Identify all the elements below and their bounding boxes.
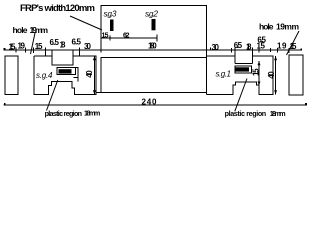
svg-text:15: 15 [102,33,109,40]
width dimension 15 right [258,61,260,85]
svg-text:40: 40 [85,70,94,78]
svg-text:18mm: 18mm [84,109,100,118]
right grip shape with plastic region notch [206,56,273,94]
plastic region leader right [235,79,247,112]
left grip shape with plastic region notch [34,56,96,94]
strain gauge s.g.1 bar [236,67,250,71]
svg-text:6.5: 6.5 [72,38,82,47]
svg-text:30: 30 [212,43,220,52]
svg-text:19mm: 19mm [30,25,49,35]
svg-text:15: 15 [9,43,17,52]
svg-text:40: 40 [267,71,276,79]
svg-text:15: 15 [251,68,260,76]
center plate rect [101,58,206,93]
svg-text:240: 240 [142,98,158,107]
gauge position dimension line in box [101,35,157,42]
svg-text:s.g.1: s.g.1 [216,70,232,79]
svg-text:18: 18 [246,43,252,52]
svg-text:6.5: 6.5 [234,41,243,50]
main dimension line row [4,47,303,63]
leader hole right [287,31,300,55]
svg-text:18mm: 18mm [270,109,286,118]
svg-text:15: 15 [290,42,298,51]
right end plate rect [289,55,303,95]
leader hole left [31,33,36,54]
plastic region leader left [47,80,58,111]
width dimension 40 right [275,56,277,94]
svg-text:plastic region: plastic region [225,109,267,118]
svg-text:plastic region: plastic region [45,109,82,118]
gauge tab left [52,50,73,65]
svg-text:15: 15 [257,42,266,51]
svg-text:s.g.3: s.g.3 [104,10,118,19]
leader FRP width [70,16,102,30]
svg-text:FRP's width120mm: FRP's width120mm [20,3,95,14]
strain gauge s.g.2 [152,19,156,30]
svg-text:hole: hole [259,22,274,32]
connector line shape2 to center [96,91,101,93]
bracket top right gauge [235,62,253,64]
overall length dimension line [4,103,308,105]
svg-text:s.g.2: s.g.2 [145,10,159,19]
FRP plan view box [101,5,206,50]
svg-text:s.g.4: s.g.4 [36,71,53,80]
strain gauge s.g.4 bar [59,69,72,73]
svg-text:180: 180 [148,42,157,51]
clip bracket left [74,68,79,82]
svg-text:19: 19 [18,42,26,51]
extensometer frame left [57,68,76,75]
svg-text:30: 30 [84,42,92,51]
svg-text:6.5: 6.5 [50,38,60,47]
strain gauge s.g.3 [110,20,114,32]
svg-text:15: 15 [35,42,43,51]
svg-text:18: 18 [60,41,67,50]
svg-text:62: 62 [123,33,130,40]
svg-text:19: 19 [277,42,287,51]
big vertical at 206.4 [205,48,207,95]
extensometer frame right [235,66,252,73]
svg-text:19mm: 19mm [276,22,299,32]
width dimension 40 left [93,56,95,94]
svg-text:hole: hole [13,25,28,35]
left end plate rect [5,56,18,94]
